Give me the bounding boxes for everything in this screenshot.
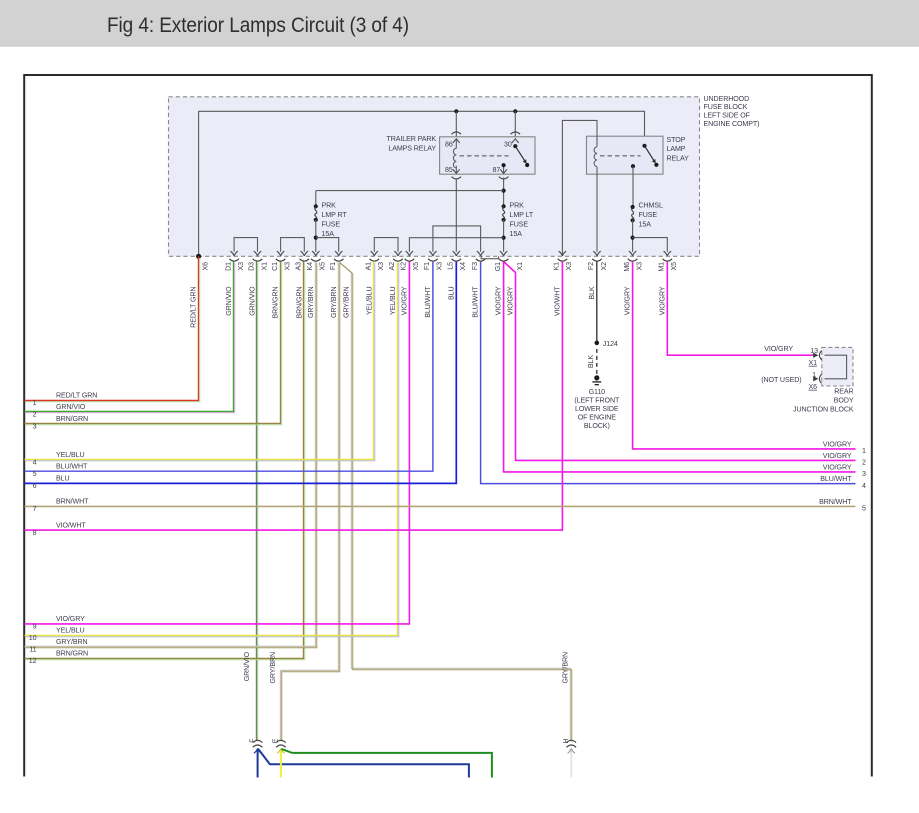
junction block internal wire bbox=[825, 355, 847, 379]
fuse PRK LMP LT 15A bbox=[502, 204, 506, 208]
svg-text:RELAY: RELAY bbox=[667, 155, 690, 163]
svg-text:YEL/BLU: YEL/BLU bbox=[389, 287, 397, 315]
wire GRY/BRN from pin F1 to connector E bbox=[281, 262, 339, 741]
svg-text:VIO/GRY: VIO/GRY bbox=[823, 452, 852, 460]
right wire 3 VIO/GRY from pin G1 bbox=[504, 262, 856, 472]
svg-text:TRAILER PARK: TRAILER PARK bbox=[386, 135, 436, 143]
svg-text:RED/LT GRN: RED/LT GRN bbox=[56, 392, 97, 400]
fuse block pin L5 at x=456.3 bbox=[447, 251, 468, 270]
underhood fuse block caption bbox=[704, 95, 760, 128]
fuse block pin K2 at x=409.4 bbox=[400, 251, 421, 270]
svg-text:JUNCTION BLOCK: JUNCTION BLOCK bbox=[793, 406, 854, 414]
svg-text:86: 86 bbox=[445, 141, 453, 149]
svg-text:FUSE: FUSE bbox=[322, 220, 341, 228]
relay pin 87 connector arc bbox=[499, 177, 509, 179]
fuse PRK LMP RT 15A bbox=[314, 204, 318, 208]
pin 30 arrow bbox=[512, 139, 519, 143]
svg-text:VIO/GRY: VIO/GRY bbox=[400, 286, 408, 315]
pin 86 arrow bbox=[455, 139, 457, 148]
connector bracket F3-G1 bbox=[481, 256, 498, 258]
fuse block pin F1 at x=338.7 bbox=[329, 251, 344, 270]
svg-text:GRY/BRN: GRY/BRN bbox=[330, 287, 338, 319]
stop relay coil bbox=[594, 147, 597, 167]
relay coil (86-85) bbox=[453, 148, 456, 168]
fuse block pin A3 at x=304.3 bbox=[295, 251, 310, 270]
svg-text:X3: X3 bbox=[377, 262, 385, 271]
svg-text:BRN/GRN: BRN/GRN bbox=[295, 287, 303, 319]
wire 12 BRN/GRN from pin A3 bbox=[25, 262, 304, 659]
svg-text:5: 5 bbox=[33, 470, 37, 478]
pin G1 connector label X1 bbox=[516, 262, 524, 271]
rear body junction block (dashed box) bbox=[822, 347, 853, 386]
svg-text:BLK: BLK bbox=[588, 286, 596, 299]
wire stop relay output to CHMSL fuse bbox=[632, 174, 634, 207]
svg-text:X1: X1 bbox=[260, 262, 268, 271]
svg-text:F1: F1 bbox=[329, 262, 337, 270]
svg-text:X2: X2 bbox=[600, 262, 608, 271]
wire 9 VIO/GRY from pin K2 bbox=[25, 262, 410, 624]
wire BLK from pin F2 bbox=[596, 262, 598, 343]
svg-text:BLU/WHT: BLU/WHT bbox=[56, 462, 88, 470]
fuse block pin M6 at x=632.6 bbox=[623, 251, 644, 272]
fuse block pin F3 at x=480.6 bbox=[471, 251, 486, 270]
svg-text:FUSE BLOCK: FUSE BLOCK bbox=[704, 103, 748, 111]
svg-text:F2: F2 bbox=[587, 262, 595, 270]
relay internal dashed link bbox=[460, 155, 509, 157]
junction block pin 1 (X6, not used) bbox=[813, 376, 818, 381]
underhood fuse block (dashed box) bbox=[169, 97, 700, 256]
ground G110 caption bbox=[574, 388, 620, 430]
fuse block pin F2 at x=597.0 bbox=[587, 251, 608, 270]
svg-text:6: 6 bbox=[33, 482, 37, 490]
relay pin labels bbox=[445, 141, 512, 174]
svg-text:GRN/VIO: GRN/VIO bbox=[249, 286, 257, 316]
fuse block pin C1 at x=280.6 bbox=[271, 251, 292, 271]
svg-text:STOP: STOP bbox=[667, 136, 686, 144]
svg-text:X5: X5 bbox=[319, 262, 327, 271]
svg-text:BLU/WHT: BLU/WHT bbox=[820, 475, 852, 483]
svg-text:H: H bbox=[562, 739, 570, 744]
bridge pins C1-A3 bbox=[281, 238, 305, 252]
trailer park lamps relay label bbox=[386, 135, 436, 153]
stop relay coil wire from K1 link bbox=[562, 120, 597, 256]
stop lamp relay label bbox=[667, 136, 690, 163]
wire bus to relay pin 30 bbox=[514, 111, 516, 146]
right wire 4 BLU/WHT from pin F3 bbox=[481, 262, 856, 484]
relay pin 86 connector arc bbox=[452, 132, 462, 134]
svg-text:YEL/BLU: YEL/BLU bbox=[56, 627, 84, 635]
svg-text:1: 1 bbox=[862, 447, 866, 455]
yellow wire below connector E bbox=[280, 749, 282, 778]
fuse block pin D3 at x=257.5 bbox=[248, 251, 269, 271]
splice J124 bbox=[595, 341, 600, 346]
svg-text:G1: G1 bbox=[494, 262, 502, 271]
wire VIO/GRY from pin M1 to junction block bbox=[667, 262, 814, 356]
svg-text:(LEFT FRONT: (LEFT FRONT bbox=[574, 397, 620, 405]
svg-text:X3: X3 bbox=[635, 262, 643, 271]
svg-text:VIO/GRY: VIO/GRY bbox=[823, 463, 852, 471]
fuse block pin D1 at x=234.1 bbox=[224, 251, 245, 271]
svg-text:1: 1 bbox=[812, 371, 816, 379]
pin 85 arrow bbox=[455, 166, 457, 173]
svg-text:ENGINE COMPT): ENGINE COMPT) bbox=[704, 120, 760, 128]
svg-text:G110: G110 bbox=[589, 388, 606, 396]
svg-text:LMP LT: LMP LT bbox=[510, 211, 534, 219]
svg-text:L5: L5 bbox=[447, 262, 455, 270]
diagram border frame bbox=[24, 75, 872, 777]
svg-text:PRK: PRK bbox=[510, 201, 525, 209]
wire GRN/VIO from pin D3 to connector F bbox=[256, 262, 258, 741]
fuse block pin F1 at x=432.9 bbox=[423, 251, 444, 270]
svg-text:X5: X5 bbox=[670, 262, 678, 271]
relay pin 85 connector arc bbox=[452, 177, 462, 179]
svg-text:X4: X4 bbox=[459, 262, 467, 271]
svg-text:X3: X3 bbox=[436, 262, 444, 271]
pin 87 arrow bbox=[503, 165, 505, 172]
svg-text:9: 9 bbox=[33, 623, 37, 631]
wire colour labels below fuse block bbox=[190, 286, 667, 328]
svg-text:BRN/GRN: BRN/GRN bbox=[56, 415, 88, 423]
svg-text:GRN/VIO: GRN/VIO bbox=[56, 403, 86, 411]
svg-text:M1: M1 bbox=[658, 262, 666, 272]
svg-text:X6: X6 bbox=[809, 383, 818, 391]
svg-text:M6: M6 bbox=[623, 262, 631, 272]
fuse block pin K1 at x=562.4 bbox=[553, 251, 574, 270]
svg-text:85: 85 bbox=[445, 166, 453, 174]
wire 6 BLU from pin L5 bbox=[25, 262, 457, 484]
fuse CHMSL output to pins M6 and M1 bbox=[632, 220, 634, 252]
svg-text:J124: J124 bbox=[603, 340, 618, 348]
bridge pins A1-A2 bbox=[374, 238, 398, 252]
svg-text:X1: X1 bbox=[809, 359, 818, 367]
fuse block pin K4 at x=315.8 bbox=[306, 251, 327, 270]
wire relay 85 to pin L5 bbox=[455, 179, 457, 252]
svg-text:GRN/VIO: GRN/VIO bbox=[225, 286, 233, 316]
fuse RT output to pins K4 and F1 bbox=[315, 220, 317, 252]
svg-text:Fig 4: Exterior Lamps Circuit: Fig 4: Exterior Lamps Circuit (3 of 4) bbox=[107, 13, 409, 37]
svg-text:BLU: BLU bbox=[447, 287, 455, 301]
svg-text:A1: A1 bbox=[365, 262, 373, 271]
svg-text:15A: 15A bbox=[639, 220, 652, 228]
blue wire below connector F bbox=[257, 749, 259, 778]
wire stop coil to pin F2 bbox=[596, 174, 598, 252]
svg-text:GRY/BRN: GRY/BRN bbox=[56, 638, 88, 646]
svg-text:BLU: BLU bbox=[56, 475, 70, 483]
svg-text:87: 87 bbox=[492, 166, 500, 174]
fuse block pin A1 at x=374.3 bbox=[365, 251, 386, 270]
svg-text:E: E bbox=[272, 738, 280, 743]
right circuit numbers and labels bbox=[819, 440, 866, 512]
wire 11 GRY/BRN from pin K4 bbox=[25, 262, 316, 647]
svg-text:X3: X3 bbox=[237, 262, 245, 271]
svg-text:FUSE: FUSE bbox=[510, 220, 529, 228]
junction block caption bbox=[793, 388, 854, 414]
svg-text:YEL/BLU: YEL/BLU bbox=[365, 287, 373, 315]
trailer park lamps relay box bbox=[440, 137, 535, 174]
svg-text:LAMP: LAMP bbox=[667, 145, 686, 153]
svg-text:A2: A2 bbox=[388, 262, 396, 271]
wire 10 YEL/BLU from pin A2 bbox=[25, 262, 398, 636]
bottom connector H bbox=[562, 652, 577, 747]
white wire below connector H bbox=[570, 749, 572, 778]
wire 4 YEL/BLU from pin A1 bbox=[25, 262, 374, 460]
junction block pin 13 (X1) bbox=[813, 353, 818, 358]
relay switch blade 30-87 bbox=[513, 144, 517, 148]
svg-text:BLOCK): BLOCK) bbox=[584, 422, 610, 430]
stop relay switch blade bbox=[642, 144, 646, 148]
svg-text:LOWER SIDE: LOWER SIDE bbox=[575, 405, 619, 413]
right wire 1 VIO/GRY from pin M6 bbox=[633, 262, 856, 449]
stop relay coil to pin F2 bbox=[596, 167, 598, 174]
svg-text:LMP RT: LMP RT bbox=[322, 211, 348, 219]
svg-text:X6: X6 bbox=[201, 262, 209, 271]
wire 2 GRN/VIO from pin D1 bbox=[25, 262, 234, 412]
bus wire B+ feed bbox=[199, 111, 645, 256]
svg-text:PRK: PRK bbox=[322, 201, 337, 209]
svg-text:F: F bbox=[248, 738, 256, 743]
svg-text:LAMPS RELAY: LAMPS RELAY bbox=[388, 144, 436, 152]
svg-text:RED/LT GRN: RED/LT GRN bbox=[190, 287, 198, 328]
svg-text:15A: 15A bbox=[322, 230, 335, 238]
svg-text:X3: X3 bbox=[283, 262, 291, 271]
svg-text:VIO/GRY: VIO/GRY bbox=[624, 286, 632, 315]
svg-text:VIO/GRY: VIO/GRY bbox=[823, 440, 852, 448]
svg-text:GRY/BRN: GRY/BRN bbox=[562, 652, 570, 684]
svg-text:11: 11 bbox=[29, 646, 36, 654]
wire 8 VIO/WHT from pin K1 bbox=[25, 262, 563, 530]
svg-text:4: 4 bbox=[33, 458, 37, 466]
svg-text:D1: D1 bbox=[224, 262, 232, 271]
wire 1 RED/LT GRN from pin X6 bbox=[25, 257, 199, 401]
wire 7 BRN/WHT left-to-right bbox=[25, 505, 856, 507]
svg-text:F1: F1 bbox=[423, 262, 431, 270]
svg-text:C1: C1 bbox=[271, 262, 279, 271]
wire 5 BLU/WHT from pin F1 bbox=[25, 262, 433, 472]
svg-text:X1: X1 bbox=[516, 262, 524, 271]
svg-text:GRY/BRN: GRY/BRN bbox=[343, 287, 351, 319]
svg-text:D3: D3 bbox=[248, 262, 256, 271]
svg-text:UNDERHOOD: UNDERHOOD bbox=[704, 95, 750, 103]
svg-text:3: 3 bbox=[862, 470, 866, 478]
bus junction node (pin 86 tap) bbox=[454, 109, 458, 113]
left circuit numbers and labels bbox=[29, 392, 98, 666]
svg-text:REAR: REAR bbox=[834, 388, 853, 396]
svg-text:BODY: BODY bbox=[834, 397, 854, 405]
fuse block pin G1 at x=503.6 bbox=[494, 251, 509, 271]
wire BLK dashed to ground bbox=[596, 349, 598, 374]
svg-text:GRY/BRN: GRY/BRN bbox=[269, 652, 277, 684]
fuse CHMSL 15A bbox=[631, 205, 635, 209]
svg-text:2: 2 bbox=[862, 459, 866, 467]
right wire 2 VIO/GRY from pin G1 branch bbox=[504, 262, 856, 461]
svg-text:BLK: BLK bbox=[587, 355, 595, 368]
svg-text:VIO/GRY: VIO/GRY bbox=[764, 345, 793, 353]
svg-text:13: 13 bbox=[810, 347, 818, 355]
svg-text:(NOT USED): (NOT USED) bbox=[761, 376, 801, 384]
svg-text:1: 1 bbox=[33, 399, 37, 407]
stop relay output contact bbox=[631, 164, 635, 168]
svg-text:30: 30 bbox=[504, 141, 512, 149]
svg-text:X5: X5 bbox=[412, 262, 420, 271]
fuse block pin X6 at x=198.6 bbox=[196, 254, 209, 271]
svg-text:VIO/GRY: VIO/GRY bbox=[507, 286, 515, 315]
fuse LT output to pins G1 and K2 bbox=[503, 220, 505, 252]
svg-text:10: 10 bbox=[29, 634, 37, 642]
svg-text:A3: A3 bbox=[295, 262, 303, 271]
fuse block pin A2 at x=398.0 bbox=[388, 251, 403, 270]
svg-text:2: 2 bbox=[33, 411, 37, 419]
svg-text:VIO/GRY: VIO/GRY bbox=[495, 286, 503, 315]
svg-text:BLU/WHT: BLU/WHT bbox=[424, 286, 432, 318]
svg-text:BLU/WHT: BLU/WHT bbox=[472, 286, 480, 318]
svg-text:12: 12 bbox=[29, 657, 37, 665]
bottom connector E bbox=[269, 652, 286, 747]
wire 3 BRN/GRN from pin C1 bbox=[25, 262, 281, 424]
svg-text:5: 5 bbox=[862, 505, 866, 513]
svg-text:GRY/BRN: GRY/BRN bbox=[307, 287, 315, 319]
svg-text:VIO/GRY: VIO/GRY bbox=[56, 615, 85, 623]
svg-text:X3: X3 bbox=[565, 262, 573, 271]
bus junction node (pin 30 tap) bbox=[513, 109, 517, 113]
wire GRY/BRN from pin F1 (branch) to connector H bbox=[339, 262, 571, 741]
svg-text:BRN/GRN: BRN/GRN bbox=[272, 287, 280, 319]
svg-text:15A: 15A bbox=[510, 230, 523, 238]
relay 87 contact bbox=[502, 163, 506, 167]
svg-text:LEFT SIDE OF: LEFT SIDE OF bbox=[704, 112, 751, 120]
green branch wire below connector E bbox=[282, 749, 492, 778]
title bar bbox=[0, 0, 919, 47]
svg-text:K2: K2 bbox=[400, 262, 408, 271]
svg-text:4: 4 bbox=[862, 482, 866, 490]
bridge pins D1-D3 bbox=[234, 238, 257, 252]
svg-text:GRN/VIO: GRN/VIO bbox=[243, 651, 251, 681]
svg-text:VIO/WHT: VIO/WHT bbox=[553, 286, 561, 316]
svg-text:K4: K4 bbox=[306, 262, 314, 271]
blue branch wire below connector F bbox=[258, 749, 469, 778]
svg-text:7: 7 bbox=[33, 505, 37, 513]
ground G110 bbox=[594, 375, 599, 380]
bridge pins F1-F3 bbox=[433, 226, 481, 252]
svg-text:BRN/WHT: BRN/WHT bbox=[56, 498, 89, 506]
svg-text:VIO/GRY: VIO/GRY bbox=[658, 286, 666, 315]
relay pin 30 connector arc bbox=[511, 132, 521, 134]
svg-text:VIO/WHT: VIO/WHT bbox=[56, 521, 86, 529]
wire relay 87 to fuses (splice) bbox=[503, 178, 505, 207]
svg-text:BRN/WHT: BRN/WHT bbox=[819, 498, 852, 506]
svg-text:F3: F3 bbox=[471, 262, 479, 270]
svg-text:FUSE: FUSE bbox=[639, 211, 658, 219]
svg-text:OF ENGINE: OF ENGINE bbox=[578, 414, 616, 422]
svg-text:BRN/GRN: BRN/GRN bbox=[56, 650, 88, 658]
bottom connector F bbox=[243, 651, 262, 747]
wire bus to relay pin 86 bbox=[455, 111, 457, 148]
svg-text:8: 8 bbox=[33, 529, 37, 537]
svg-text:3: 3 bbox=[33, 423, 37, 431]
svg-text:K1: K1 bbox=[553, 262, 561, 271]
stop lamp relay box bbox=[587, 136, 664, 174]
fuse block pin M1 at x=667.3 bbox=[658, 251, 679, 272]
svg-text:YEL/BLU: YEL/BLU bbox=[56, 451, 84, 459]
stop relay internal dashed link bbox=[600, 155, 641, 157]
svg-text:CHMSL: CHMSL bbox=[639, 201, 663, 209]
